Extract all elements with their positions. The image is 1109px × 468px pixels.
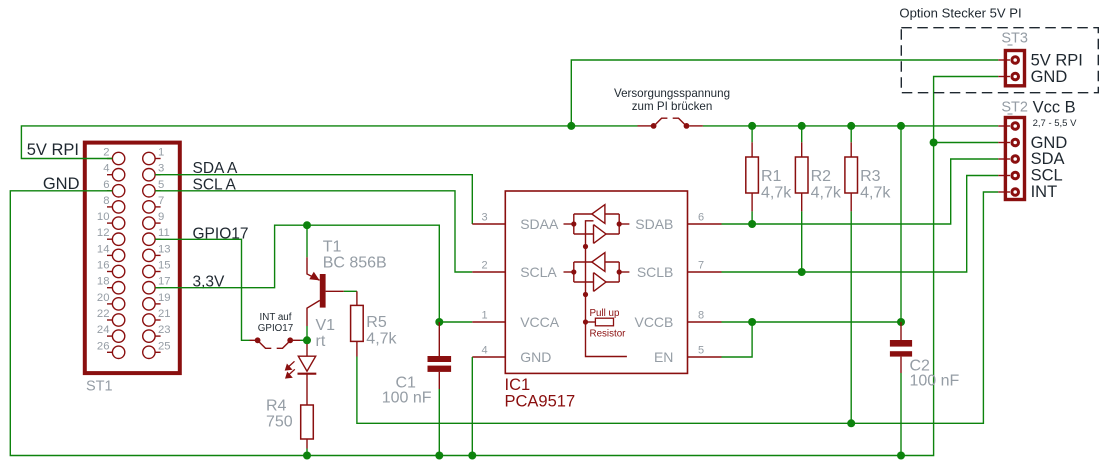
svg-text:rt: rt bbox=[316, 333, 326, 350]
resistor R4 body bbox=[301, 405, 314, 439]
wire Vcc B rail down to VCCB line bbox=[900, 126, 902, 322]
svg-text:18: 18 bbox=[97, 276, 110, 288]
LED V1 triangle bbox=[298, 356, 315, 371]
svg-text:4: 4 bbox=[481, 345, 487, 357]
wire VCCB from IC1 pin8 to C2/rail riser bbox=[722, 321, 902, 323]
svg-text:ST3: ST3 bbox=[1001, 30, 1028, 46]
IC1 pin 1 lead (VCCA) bbox=[472, 321, 505, 323]
svg-text:SDA: SDA bbox=[1031, 150, 1065, 168]
op-amp/buffer IC U1 box (IC1) bbox=[505, 191, 687, 373]
jumper INT left pad bbox=[255, 337, 261, 343]
svg-text:9: 9 bbox=[158, 211, 164, 223]
wire Vcc B rail to ST2 pin Vcc B bbox=[703, 125, 998, 127]
svg-text:4,7k: 4,7k bbox=[366, 331, 397, 348]
junction rail / R3 top bbox=[847, 122, 855, 130]
junction rail / R2 top bbox=[798, 122, 806, 130]
svg-text:R2: R2 bbox=[811, 168, 832, 185]
svg-text:V1: V1 bbox=[316, 317, 336, 334]
junction bottom rail / R4 bbox=[303, 452, 311, 460]
svg-text:26: 26 bbox=[97, 340, 110, 352]
wire C1 to GND rail bbox=[438, 389, 440, 456]
C1 top lead bbox=[438, 322, 440, 356]
svg-text:EN: EN bbox=[654, 349, 673, 365]
LED V1 cathode bar bbox=[298, 373, 317, 375]
ST1 pin numbers right column (1..25) bbox=[158, 147, 171, 353]
IC1 pin 7 lead (SCLB) bbox=[688, 271, 722, 273]
svg-text:R1: R1 bbox=[761, 168, 782, 185]
junction SDAB / R1 bottom bbox=[748, 220, 756, 228]
R5 bottom lead bbox=[356, 341, 358, 356]
jumper INT right stub bbox=[293, 339, 300, 341]
C2 top lead bbox=[900, 322, 902, 340]
resistor R3 bbox=[850, 126, 852, 142]
jumper JP dashed bridge bbox=[656, 118, 685, 124]
svg-text:16: 16 bbox=[97, 260, 110, 272]
svg-text:zum PI brücken: zum PI brücken bbox=[632, 100, 713, 113]
svg-text:13: 13 bbox=[158, 243, 171, 255]
wire T1 collector to node bbox=[306, 326, 308, 337]
resistor R5 body bbox=[351, 305, 364, 341]
wire GPIO17 from ST1 pin11 down to INT jumper bbox=[155, 239, 249, 340]
LED V1 emission arrows bbox=[286, 361, 295, 378]
svg-text:4,7k: 4,7k bbox=[761, 185, 792, 202]
svg-text:8: 8 bbox=[103, 195, 109, 207]
wire 5V RPI: ST1 pin2 up to top rail, to jumper bbox=[21, 126, 637, 159]
svg-text:SDAB: SDAB bbox=[635, 216, 673, 232]
C2 bottom lead bbox=[900, 357, 902, 373]
svg-text:SCLB: SCLB bbox=[637, 264, 674, 280]
wire INT from R5 bottom along y=423 up to ST2 INT bbox=[357, 192, 998, 423]
V1 anode lead bbox=[306, 344, 308, 356]
svg-text:R4: R4 bbox=[266, 398, 287, 415]
IC1 pin 3 lead (SDAA) bbox=[472, 223, 505, 225]
wire C2 to GND rail bbox=[900, 373, 902, 456]
svg-text:T1: T1 bbox=[323, 238, 342, 255]
jumper JP right pad bbox=[684, 123, 690, 129]
wire GND branch to ST2 GND pin bbox=[934, 142, 999, 144]
junction VCCB / C2 top bbox=[897, 318, 905, 326]
svg-text:SDAA: SDAA bbox=[520, 216, 559, 232]
svg-text:1: 1 bbox=[158, 147, 164, 159]
svg-text:6: 6 bbox=[698, 212, 704, 224]
svg-text:6: 6 bbox=[103, 179, 109, 191]
junction VCCA / C1 top bbox=[435, 318, 443, 326]
wire SDA A from ST1 pin3 to IC1 pin 3 bbox=[155, 175, 472, 224]
svg-text:Resistor: Resistor bbox=[590, 329, 627, 340]
svg-text:5V RPI: 5V RPI bbox=[27, 141, 79, 159]
svg-text:INT auf: INT auf bbox=[260, 312, 292, 323]
svg-text:R5: R5 bbox=[366, 314, 387, 331]
wire IC1 GND pin to bottom rail bbox=[471, 357, 473, 456]
wire SCL A from ST1 pin5 to IC1 pin 2 bbox=[155, 191, 472, 272]
svg-text:2: 2 bbox=[481, 260, 487, 272]
svg-text:14: 14 bbox=[97, 243, 110, 255]
svg-text:Option Stecker 5V PI: Option Stecker 5V PI bbox=[899, 5, 1021, 20]
svg-text:7: 7 bbox=[158, 195, 164, 207]
svg-text:SCL: SCL bbox=[1031, 167, 1063, 185]
svg-text:R3: R3 bbox=[860, 168, 881, 185]
svg-text:23: 23 bbox=[158, 324, 171, 336]
svg-text:4: 4 bbox=[103, 163, 109, 175]
IC1 internal channel rail bbox=[586, 221, 627, 357]
connector ST2 pins bbox=[998, 123, 1018, 196]
IC1 pin 4 lead (GND) bbox=[472, 356, 505, 358]
svg-text:Versorgungsspannung: Versorgungsspannung bbox=[614, 87, 730, 100]
svg-text:15: 15 bbox=[158, 260, 171, 272]
junction GND riser / ST2 GND branch bbox=[930, 139, 938, 147]
svg-text:3: 3 bbox=[481, 212, 487, 224]
svg-text:GND: GND bbox=[1031, 134, 1068, 152]
wire T1 base to R5 bbox=[344, 290, 357, 292]
IC1 pin 6 lead (SDAB) bbox=[688, 223, 722, 225]
junction VCCB / EN riser bbox=[748, 318, 756, 326]
svg-text:8: 8 bbox=[698, 310, 704, 322]
svg-text:GND: GND bbox=[1031, 68, 1068, 86]
wire 5V RPI feed to ST3 pin 1 bbox=[571, 60, 998, 126]
svg-text:22: 22 bbox=[97, 308, 110, 320]
svg-text:11: 11 bbox=[158, 227, 170, 239]
junction INT line / R3 bottom bbox=[847, 419, 855, 427]
svg-text:2: 2 bbox=[103, 147, 109, 159]
svg-text:3: 3 bbox=[158, 163, 164, 175]
wire EN from IC1 pin5 up to VCCB bbox=[722, 322, 753, 357]
svg-text:Pull up: Pull up bbox=[590, 308, 621, 319]
R4 bottom lead bbox=[306, 439, 308, 449]
svg-text:24: 24 bbox=[97, 324, 110, 336]
svg-text:12: 12 bbox=[97, 227, 110, 239]
junction 3,3V rail / T1 emitter bbox=[303, 221, 311, 229]
junction bottom rail / C1 bbox=[435, 452, 443, 460]
wire SCLB from IC1 pin7 to ST2 SCL bbox=[722, 176, 999, 273]
svg-text:5: 5 bbox=[698, 345, 704, 357]
svg-text:5: 5 bbox=[158, 179, 164, 191]
svg-text:5V RPI: 5V RPI bbox=[1031, 52, 1083, 70]
capacitor C2 plates bbox=[890, 340, 912, 347]
T1 base lead bbox=[326, 290, 344, 292]
connector ST1 pin circles and leads bbox=[107, 152, 161, 358]
jumper INT dashed bridge bbox=[259, 342, 288, 348]
capacitor C1 plates bbox=[428, 356, 452, 362]
svg-text:19: 19 bbox=[158, 292, 171, 304]
transistor T1 emitter lead with arrow bbox=[307, 257, 320, 280]
svg-text:1: 1 bbox=[481, 310, 487, 322]
svg-text:PCA9517: PCA9517 bbox=[505, 392, 576, 410]
V1 cathode to R4 bbox=[306, 374, 308, 405]
wire GND: ST1 pin6 left, down, bottom rail, up right side to ST3 GND bbox=[10, 77, 998, 456]
IC1 pin 5 lead (EN) bbox=[688, 356, 722, 358]
ST1 pin numbers left column (2..26) bbox=[97, 147, 110, 353]
jumper INT left stub bbox=[250, 339, 256, 341]
svg-text:25: 25 bbox=[158, 340, 171, 352]
svg-text:ST2: ST2 bbox=[1001, 99, 1028, 115]
svg-text:20: 20 bbox=[97, 292, 110, 304]
IC1 pin 8 lead (VCCB) bbox=[688, 321, 722, 323]
wire jumper to node V1/T1 bbox=[300, 339, 307, 341]
svg-text:4,7k: 4,7k bbox=[811, 185, 842, 202]
IC1 internal buffer pair SCL (U1b) bbox=[564, 253, 630, 292]
svg-text:BC 856B: BC 856B bbox=[323, 255, 387, 272]
svg-text:INT: INT bbox=[1031, 183, 1058, 201]
C1 bottom lead bbox=[438, 372, 440, 389]
resistor R1 bbox=[751, 126, 753, 142]
svg-text:100 nF: 100 nF bbox=[382, 389, 432, 406]
wire SDAB from IC1 pin6 to ST2 SDA bbox=[722, 159, 999, 224]
dashed option box bbox=[901, 28, 1098, 93]
junction rail / VCCB riser bbox=[897, 122, 905, 130]
connector ST3 pin 2 bbox=[998, 76, 1010, 78]
wire R4 to GND rail bbox=[306, 449, 308, 456]
connector ST1 body bbox=[85, 143, 180, 374]
junction top rail / ST3 feed bbox=[567, 122, 575, 130]
connector ST2 body bbox=[1005, 118, 1024, 200]
IC1 internal buffer pair SDA (U1a) bbox=[564, 205, 630, 244]
svg-text:4,7k: 4,7k bbox=[860, 185, 891, 202]
svg-text:GPIO17: GPIO17 bbox=[258, 323, 293, 334]
svg-text:17: 17 bbox=[158, 276, 171, 288]
connector ST3 pin 1 bbox=[998, 59, 1010, 61]
junction SCLB / R2 bottom bbox=[798, 268, 806, 276]
resistor R2 bbox=[801, 126, 803, 142]
junction bottom rail / C2 bbox=[897, 452, 905, 460]
transistor T1 base bar bbox=[320, 274, 326, 308]
svg-text:7: 7 bbox=[698, 260, 704, 272]
jumper INT right pad bbox=[287, 337, 293, 343]
wire 3,3V from ST1 pin17 to IC1 VCCA bbox=[155, 225, 472, 322]
junction node T1 collector / V1 / INT jumper bbox=[303, 336, 311, 344]
svg-text:10: 10 bbox=[97, 211, 110, 223]
svg-text:VCCB: VCCB bbox=[634, 314, 673, 330]
IC1 internal pull-up resistor symbol bbox=[586, 321, 596, 323]
junction bottom rail / IC1 GND bbox=[468, 452, 476, 460]
svg-text:21: 21 bbox=[158, 308, 171, 320]
connector ST3 body bbox=[1005, 51, 1024, 86]
svg-text:VCCA: VCCA bbox=[520, 314, 560, 330]
svg-text:GND: GND bbox=[520, 349, 551, 365]
wire 3,3V down to T1 emitter bbox=[306, 225, 308, 257]
jumper JP right stub bbox=[689, 125, 703, 127]
R5 top lead bbox=[356, 291, 358, 305]
junction rail / R1 top bbox=[748, 122, 756, 130]
jumper JP left stub bbox=[638, 125, 652, 127]
svg-text:100 nF: 100 nF bbox=[910, 373, 960, 390]
svg-text:750: 750 bbox=[266, 414, 293, 431]
svg-text:ST1: ST1 bbox=[86, 379, 113, 395]
svg-text:2,7 - 5,5 V: 2,7 - 5,5 V bbox=[1033, 118, 1077, 129]
svg-text:GPIO17: GPIO17 bbox=[193, 226, 249, 243]
transistor T1 collector lead bbox=[307, 300, 320, 326]
svg-text:IC1: IC1 bbox=[505, 376, 531, 394]
jumper JP left pad bbox=[651, 123, 657, 129]
svg-text:Vcc B: Vcc B bbox=[1033, 99, 1076, 117]
svg-text:SCLA: SCLA bbox=[520, 264, 557, 280]
IC1 pin 2 lead (SCLA) bbox=[472, 271, 505, 273]
